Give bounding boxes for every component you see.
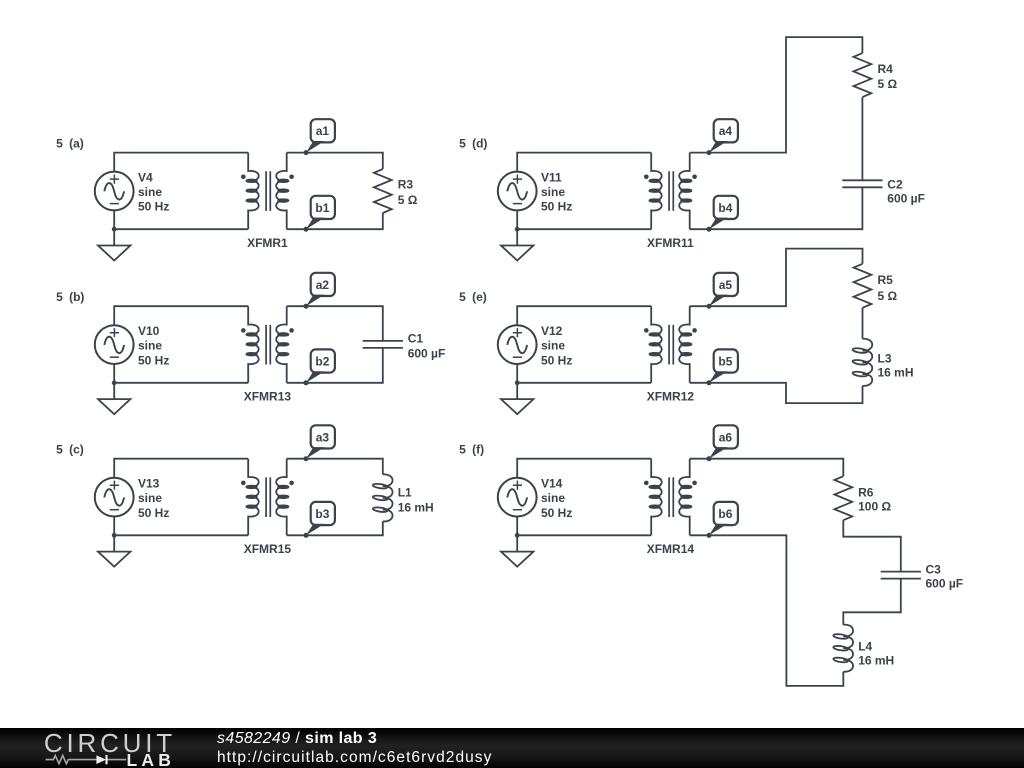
svg-text:V14: V14 bbox=[541, 477, 563, 491]
svg-text:(f): (f) bbox=[472, 443, 484, 457]
svg-text:5: 5 bbox=[56, 290, 63, 304]
svg-text:50 Hz: 50 Hz bbox=[541, 200, 572, 214]
svg-text:R6: R6 bbox=[858, 485, 874, 499]
svg-text:XFMR15: XFMR15 bbox=[244, 542, 292, 556]
svg-text:16 mH: 16 mH bbox=[878, 366, 914, 380]
svg-text:50 Hz: 50 Hz bbox=[138, 353, 169, 367]
svg-text:600 µF: 600 µF bbox=[926, 577, 964, 591]
svg-text:sine: sine bbox=[541, 491, 565, 505]
svg-text:5: 5 bbox=[56, 137, 63, 151]
svg-text:V10: V10 bbox=[138, 324, 160, 338]
svg-text:a4: a4 bbox=[719, 124, 733, 138]
svg-text:LAB: LAB bbox=[127, 750, 176, 768]
svg-text:L4: L4 bbox=[858, 640, 872, 654]
svg-text:50 Hz: 50 Hz bbox=[138, 506, 169, 520]
svg-text:sine: sine bbox=[138, 185, 162, 199]
svg-text:50 Hz: 50 Hz bbox=[138, 200, 169, 214]
svg-text:600 µF: 600 µF bbox=[887, 192, 925, 206]
svg-text:5: 5 bbox=[459, 443, 466, 457]
svg-text:a6: a6 bbox=[719, 430, 733, 444]
svg-text:V11: V11 bbox=[541, 171, 562, 185]
svg-text:5 Ω: 5 Ω bbox=[878, 289, 898, 303]
svg-text:a3: a3 bbox=[316, 430, 330, 444]
svg-text:C3: C3 bbox=[926, 563, 942, 577]
svg-text:XFMR1: XFMR1 bbox=[247, 236, 288, 250]
svg-text:(c): (c) bbox=[69, 443, 84, 457]
svg-text:50 Hz: 50 Hz bbox=[541, 506, 572, 520]
svg-text:V12: V12 bbox=[541, 324, 563, 338]
svg-text:XFMR13: XFMR13 bbox=[244, 390, 292, 404]
svg-text:XFMR12: XFMR12 bbox=[647, 390, 695, 404]
svg-text:sine: sine bbox=[541, 339, 565, 353]
svg-text:5 Ω: 5 Ω bbox=[398, 193, 418, 207]
svg-text:XFMR11: XFMR11 bbox=[647, 236, 694, 250]
svg-text:b1: b1 bbox=[315, 201, 329, 215]
svg-text:a1: a1 bbox=[316, 124, 330, 138]
svg-text:600 µF: 600 µF bbox=[408, 347, 446, 361]
svg-text:b3: b3 bbox=[315, 507, 329, 521]
svg-text:16 mH: 16 mH bbox=[858, 653, 894, 667]
svg-text:R4: R4 bbox=[878, 62, 894, 76]
svg-text:50 Hz: 50 Hz bbox=[541, 353, 572, 367]
svg-text:R5: R5 bbox=[878, 273, 894, 287]
svg-text:R3: R3 bbox=[398, 178, 414, 192]
svg-text:b6: b6 bbox=[718, 507, 732, 521]
svg-text:a5: a5 bbox=[719, 278, 733, 292]
svg-text:L3: L3 bbox=[878, 351, 892, 365]
svg-text:a2: a2 bbox=[316, 278, 330, 292]
svg-text:b5: b5 bbox=[718, 354, 732, 368]
svg-text:(b): (b) bbox=[69, 290, 84, 304]
svg-text:sine: sine bbox=[138, 339, 162, 353]
svg-text:C1: C1 bbox=[408, 331, 424, 345]
svg-text:5: 5 bbox=[459, 137, 466, 151]
svg-text:V13: V13 bbox=[138, 477, 160, 491]
svg-text:b2: b2 bbox=[315, 354, 329, 368]
svg-text:sine: sine bbox=[138, 491, 162, 505]
svg-text:5: 5 bbox=[56, 443, 63, 457]
svg-text:XFMR14: XFMR14 bbox=[647, 542, 695, 556]
svg-text:(e): (e) bbox=[472, 290, 487, 304]
svg-text:V4: V4 bbox=[138, 171, 153, 185]
svg-text:(d): (d) bbox=[472, 137, 487, 151]
svg-text:b4: b4 bbox=[718, 201, 732, 215]
svg-text:5: 5 bbox=[459, 290, 466, 304]
svg-text:L1: L1 bbox=[398, 485, 412, 499]
svg-text:C2: C2 bbox=[887, 178, 903, 192]
svg-text:sine: sine bbox=[541, 185, 565, 199]
svg-text:100 Ω: 100 Ω bbox=[858, 499, 891, 513]
svg-text:5 Ω: 5 Ω bbox=[878, 77, 898, 91]
svg-text:16 mH: 16 mH bbox=[398, 500, 434, 514]
svg-text:(a): (a) bbox=[69, 137, 84, 151]
